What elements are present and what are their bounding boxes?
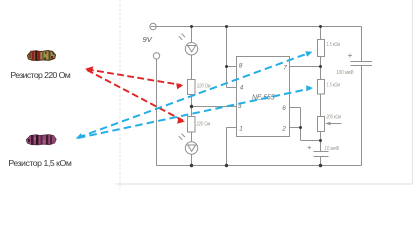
svg-text:1.5 кОм: 1.5 кОм bbox=[327, 42, 341, 48]
svg-text:2: 2 bbox=[281, 126, 286, 133]
svg-text:10 мкФ: 10 мкФ bbox=[324, 146, 339, 152]
svg-text:100 мкФ: 100 мкФ bbox=[336, 70, 353, 76]
svg-text:220 Ом: 220 Ом bbox=[196, 122, 211, 128]
svg-text:Резистор 1,5 кОм: Резистор 1,5 кОм bbox=[8, 158, 71, 168]
svg-text:8: 8 bbox=[239, 63, 243, 70]
svg-text:4: 4 bbox=[240, 85, 244, 92]
svg-text:220 Ом: 220 Ом bbox=[196, 84, 211, 90]
svg-text:1: 1 bbox=[239, 126, 243, 133]
svg-text:1.5 кОм: 1.5 кОм bbox=[327, 83, 341, 89]
svg-text:7: 7 bbox=[283, 65, 287, 72]
svg-text:200 кОм: 200 кОм bbox=[326, 115, 342, 121]
svg-text:6: 6 bbox=[282, 105, 286, 112]
svg-text:Резистор 220 Ом: Резистор 220 Ом bbox=[10, 70, 70, 80]
svg-text:9V: 9V bbox=[143, 35, 153, 44]
